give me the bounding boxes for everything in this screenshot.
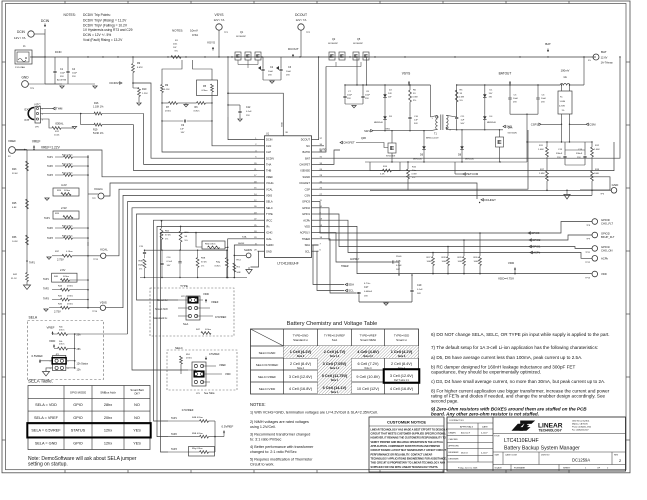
svg-text:5%: 5% — [412, 177, 415, 179]
svg-text:a) D5, D6 have average current: a) D5, D6 have average current less than… — [431, 355, 582, 360]
svg-text:TIMER: TIMER — [302, 237, 310, 241]
svg-text:100K: 100K — [474, 261, 480, 263]
svg-text:6.8K: 6.8K — [12, 207, 17, 209]
svg-text:GND: GND — [21, 76, 29, 80]
svg-text:12V / 7A: 12V / 7A — [296, 18, 307, 22]
svg-text:ICHG: ICHG — [266, 231, 272, 235]
svg-text:10uF: 10uF — [72, 73, 78, 75]
svg-text:GPIO1: GPIO1 — [532, 245, 541, 249]
svg-text:100K: 100K — [594, 173, 600, 175]
svg-text:Q4B: Q4B — [361, 137, 366, 140]
svg-text:3.2K: 3.2K — [380, 174, 385, 176]
svg-text:CSP: CSP — [305, 187, 311, 191]
svg-text:10uF: 10uF — [268, 71, 274, 73]
svg-text:24V: 24V — [388, 93, 392, 95]
svg-text:SELC: SELC — [175, 346, 184, 350]
svg-text:OK?: OK? — [134, 392, 140, 396]
svg-text:1: 1 — [50, 361, 51, 363]
svg-text:16V: 16V — [181, 132, 185, 134]
svg-text:SELA = VDD: SELA = VDD — [35, 403, 57, 407]
svg-text:SGND: SGND — [303, 175, 311, 179]
svg-text:2: 2 — [42, 114, 43, 116]
svg-text:0.5VREF: 0.5VREF — [215, 315, 227, 319]
svg-text:DCHFET: DCHFET — [485, 198, 497, 202]
svg-text:BATID: BATID — [303, 150, 311, 154]
svg-text:VCAL: VCAL — [266, 187, 273, 191]
svg-text:Antonio R: Antonio R — [460, 432, 471, 435]
svg-text:1uF: 1uF — [461, 120, 465, 122]
svg-text:SI7460DP: SI7460DP — [328, 43, 339, 45]
svg-text:R4c: R4c — [59, 341, 63, 343]
svg-text:16V: 16V — [167, 265, 171, 267]
svg-text:GPIO3: GPIO3 — [302, 200, 310, 204]
svg-text:R5g 0Ohm: R5g 0Ohm — [192, 448, 203, 450]
svg-text:GND: GND — [266, 249, 272, 253]
svg-text:VCHG: VCHG — [94, 187, 103, 191]
svg-text:SHDN: SHDN — [266, 243, 273, 247]
svg-text:25V: 25V — [286, 75, 290, 77]
svg-text:STATUS: STATUS — [71, 429, 86, 433]
svg-text:TAP3: TAP3 — [47, 174, 53, 177]
svg-text:TAP1: TAP1 — [29, 261, 35, 264]
svg-text:APPROVED: APPROVED — [449, 445, 460, 448]
svg-text:second page.: second page. — [431, 399, 459, 404]
svg-text:TAP1: TAP1 — [47, 156, 53, 159]
svg-text:Note 1,4: Note 1,4 — [330, 367, 340, 370]
svg-text:TECHNOLOGY: TECHNOLOGY — [539, 429, 563, 433]
svg-text:CHG_FLT: CHG_FLT — [601, 222, 613, 226]
svg-text:Note 4: Note 4 — [297, 367, 305, 370]
svg-text:R56 0Ohm: R56 0Ohm — [205, 244, 216, 246]
svg-text:NO: NO — [134, 403, 140, 407]
svg-text:SELC=VDD: SELC=VDD — [259, 387, 276, 391]
svg-text:TAP2: TAP2 — [47, 165, 53, 168]
svg-text:10uF: 10uF — [365, 95, 371, 97]
svg-text:DCIN: DCIN — [17, 30, 25, 34]
svg-text:DCIN: DCIN — [266, 138, 272, 142]
svg-text:0.5VREF: 0.5VREF — [32, 354, 44, 358]
svg-text:3 Cell (12.6V): 3 Cell (12.6V) — [390, 374, 414, 378]
svg-text:DCOUT: DCOUT — [301, 138, 311, 142]
svg-text:GPIO: GPIO — [73, 416, 83, 420]
svg-text:5) Requires modification of Th: 5) Requires modification of Thermistor — [250, 458, 313, 462]
svg-text:16V: 16V — [396, 269, 400, 271]
svg-text:DCDIV TripV (Rising) = 11.2V: DCDIV TripV (Rising) = 11.2V — [83, 19, 127, 23]
svg-text:8.67K: 8.67K — [137, 67, 143, 69]
svg-text:GPIO3: GPIO3 — [531, 231, 540, 235]
svg-text:MBR0540: MBR0540 — [374, 122, 384, 124]
svg-text:FILENAME: FILENAME — [514, 467, 525, 470]
svg-text:25V: 25V — [365, 98, 369, 100]
svg-text:ACPb: ACPb — [601, 256, 609, 260]
svg-text:1%: 1% — [562, 110, 565, 112]
svg-text:DRAWN: DRAWN — [449, 431, 457, 434]
svg-text:1A-7Amax: 1A-7Amax — [601, 61, 614, 65]
svg-text:12V / 7A: 12V / 7A — [14, 36, 26, 40]
svg-text:2.75V: 2.75V — [54, 310, 61, 314]
svg-text:MBR0540: MBR0540 — [487, 122, 497, 124]
svg-text:0.5VREF: 0.5VREF — [222, 425, 234, 429]
svg-text:ICAL: ICAL — [242, 236, 248, 239]
svg-text:2.9V: 2.9V — [61, 206, 67, 210]
svg-text:10uF: 10uF — [286, 71, 292, 73]
svg-text:SELC=GND: SELC=GND — [259, 351, 277, 355]
svg-text:0Ohm: 0Ohm — [194, 111, 200, 113]
svg-text:2.49K: 2.49K — [539, 173, 545, 175]
svg-text:VDD: VDD — [49, 339, 56, 343]
svg-text:Def T ains 1:1: Def T ains 1:1 — [394, 379, 409, 382]
svg-text:0.1uF: 0.1uF — [167, 261, 173, 263]
svg-text:ISENSE: ISENSE — [300, 169, 310, 173]
svg-text:NOTES:: NOTES: — [64, 13, 76, 17]
svg-text:HOWEVER, IT REMAINS THE CUSTOM: HOWEVER, IT REMAINS THE CUSTOMER'S RESPO… — [371, 437, 446, 440]
svg-text:CSM: CSM — [589, 122, 596, 126]
svg-text:SELA = VREF: SELA = VREF — [34, 416, 59, 420]
svg-text:1%: 1% — [201, 266, 204, 268]
svg-text:SLA: SLA — [183, 322, 188, 326]
svg-text:R25: R25 — [12, 202, 17, 205]
svg-text:R10: R10 — [142, 88, 147, 91]
svg-text:MBR0540: MBR0540 — [465, 159, 475, 161]
svg-text:to: 3:1 ratio Pri/Sec: to: 3:1 ratio Pri/Sec — [250, 438, 282, 442]
svg-text:25V: 25V — [246, 115, 250, 117]
svg-text:Smart NiMH: Smart NiMH — [360, 338, 376, 342]
svg-text:Battery Chemistry and Voltage: Battery Chemistry and Voltage Table — [287, 321, 377, 327]
svg-text:0Ohm: 0Ohm — [64, 190, 70, 192]
svg-text:4 Cell (4.8V): 4 Cell (4.8V) — [357, 350, 379, 354]
svg-text:4) Better performance with tra: 4) Better performance with transformer — [250, 445, 314, 449]
svg-text:9 Cell (10.8V): 9 Cell (10.8V) — [356, 375, 380, 379]
svg-text:3 Cell (7.05V): 3 Cell (7.05V) — [323, 362, 347, 366]
svg-text:VREF: VREF — [8, 139, 16, 143]
svg-text:0Ohm: 0Ohm — [67, 303, 73, 305]
svg-text:35V: 35V — [60, 76, 64, 78]
svg-text:R5B 0Ohm: R5B 0Ohm — [192, 433, 203, 435]
svg-text:SHEET: SHEET — [563, 468, 571, 470]
svg-text:CHG_ON: CHG_ON — [601, 248, 613, 252]
svg-text:6 Cell (7.2V): 6 Cell (7.2V) — [357, 362, 379, 366]
svg-text:28h: 28h — [77, 348, 82, 351]
svg-text:1A: 1A — [563, 75, 567, 79]
svg-text:capacitance, they should be ex: capacitance, they should be experimental… — [431, 370, 541, 375]
svg-text:LINEAR TECHNOLOGY HAS MADE A B: LINEAR TECHNOLOGY HAS MADE A BEST EFFORT… — [371, 428, 448, 431]
svg-text:TIMER: TIMER — [341, 265, 349, 268]
svg-text:DCIN = 12V +/- 5%: DCIN = 12V +/- 5% — [83, 33, 111, 37]
svg-text:SELA: SELA — [29, 316, 38, 320]
svg-text:162K: 162K — [138, 265, 144, 267]
svg-text:TITLE:: TITLE: — [494, 436, 500, 438]
svg-text:5%: 5% — [460, 100, 463, 102]
svg-text:10.0k: 10.0k — [54, 135, 60, 137]
svg-text:0Ohm: 0Ohm — [186, 358, 192, 360]
svg-text:TYPE: TYPE — [266, 212, 273, 216]
svg-text:CUSTOMER NOTICE: CUSTOMER NOTICE — [387, 420, 426, 425]
svg-text:BH510-1019: BH510-1019 — [426, 138, 439, 140]
svg-text:SW1: SW1 — [364, 129, 370, 133]
svg-text:20m: 20m — [173, 44, 177, 46]
svg-text:SUPPLIED FOR USE WITH LINEAR T: SUPPLIED FOR USE WITH LINEAR TECHNOLOGY … — [371, 466, 439, 469]
svg-text:APPROVALS: APPROVALS — [460, 426, 474, 429]
svg-text:50V: 50V — [461, 123, 465, 125]
svg-text:Note 3: Note 3 — [297, 355, 305, 358]
svg-text:1V Hysteresis using R73 and C2: 1V Hysteresis using R73 and C29 — [83, 28, 133, 32]
svg-text:R3B: R3B — [139, 261, 144, 263]
svg-text:Milpitas, CA 95035: Milpitas, CA 95035 — [572, 423, 588, 426]
svg-text:DCDIV TripV (Falling) = 10.2V: DCDIV TripV (Falling) = 10.2V — [83, 23, 128, 27]
svg-text:C19: C19 — [417, 284, 422, 287]
svg-text:TECHNOLOGY APPLICATIONS ENGINE: TECHNOLOGY APPLICATIONS ENGINEERING FOR … — [371, 457, 447, 460]
svg-text:330nF: 330nF — [576, 153, 583, 155]
svg-text:VREF: VREF — [47, 326, 55, 330]
svg-text:changed to: 2:1 ratio Pri/Sec: changed to: 2:1 ratio Pri/Sec — [250, 450, 297, 454]
svg-text:VREF: VREF — [219, 363, 226, 367]
svg-text:R4B 0Ohm: R4B 0Ohm — [192, 417, 203, 419]
svg-text:1.00M: 1.00M — [560, 101, 566, 103]
svg-text:DWG NO: DWG NO — [541, 455, 550, 457]
svg-text:51.1K: 51.1K — [11, 278, 17, 280]
svg-text:2.75V: 2.75V — [57, 258, 64, 262]
svg-text:12hx: 12hx — [104, 442, 112, 446]
svg-text:2.9V: 2.9V — [60, 268, 66, 272]
svg-text:PETCOM: PETCOM — [466, 172, 479, 176]
svg-text:SELC: SELC — [266, 206, 273, 210]
svg-text:25V: 25V — [347, 98, 351, 100]
svg-text:100K: 100K — [427, 261, 433, 263]
svg-text:0.5A: 0.5A — [192, 33, 198, 37]
svg-text:1%: 1% — [165, 239, 168, 241]
svg-text:IPCC: IPCC — [266, 218, 272, 222]
svg-text:APPLICATION. COMPONENT SUBSTI: APPLICATION. COMPONENT SUBSTITUTION AND … — [371, 445, 441, 448]
svg-text:CIRCUIT THAT MEETS CUSTOMER-SU: CIRCUIT THAT MEETS CUSTOMER-SUPPLIED SPE… — [371, 433, 446, 436]
svg-text:CSP1: CSP1 — [531, 122, 539, 126]
svg-text:21HS: 21HS — [396, 256, 402, 258]
svg-text:1%: 1% — [139, 269, 142, 271]
svg-text:LTC4110EUHF: LTC4110EUHF — [277, 262, 298, 266]
svg-text:TAP1: TAP1 — [44, 217, 50, 220]
svg-text:10 Cell (12V): 10 Cell (12V) — [357, 387, 380, 391]
svg-text:GPIO2/: GPIO2/ — [601, 232, 610, 236]
svg-text:0.1uF: 0.1uF — [417, 289, 423, 291]
svg-text:BAT: BAT — [601, 50, 607, 54]
svg-text:VSYS: VSYS — [402, 72, 411, 76]
svg-text:25V: 25V — [513, 102, 517, 104]
svg-text:TAP3: TAP3 — [47, 237, 53, 240]
svg-text:SHDN: SHDN — [244, 248, 252, 252]
svg-text:BATOUT: BATOUT — [499, 72, 512, 76]
svg-text:15V: 15V — [489, 93, 493, 95]
svg-text:ACPDLY: ACPDLY — [350, 258, 360, 261]
svg-text:GPIO2: GPIO2 — [532, 238, 541, 242]
svg-text:TAP1: TAP1 — [43, 278, 49, 281]
svg-text:VDD: VDD — [508, 261, 515, 265]
svg-text:BAT: BAT — [305, 156, 310, 160]
svg-text:GPIO2: GPIO2 — [302, 206, 310, 210]
svg-text:CIRCUIT BOARD LAYOUT MAY SIGNI: CIRCUIT BOARD LAYOUT MAY SIGNIFICANTLY A… — [371, 449, 447, 452]
svg-text:5.11K: 5.11K — [164, 89, 170, 91]
svg-text:C17: C17 — [364, 286, 369, 289]
svg-text:VDD: VDD — [203, 292, 209, 296]
svg-text:Q4A: Q4A — [508, 127, 513, 130]
svg-text:0Ohm: 0Ohm — [215, 266, 221, 268]
svg-text:GPIO1: GPIO1 — [302, 212, 310, 216]
svg-text:DCDIV Trip Points:: DCDIV Trip Points: — [83, 13, 111, 17]
svg-text:VDIS: VDIS — [100, 301, 107, 305]
svg-text:100K: 100K — [442, 261, 448, 263]
svg-text:R5B: R5B — [201, 258, 206, 260]
svg-text:4-1207: 4-1207 — [481, 452, 488, 454]
svg-text:4 Cell (16.8V): 4 Cell (16.8V) — [289, 387, 313, 391]
svg-text:1.10K 1%: 1.10K 1% — [93, 105, 104, 108]
svg-text:2 Cell (4.7V): 2 Cell (4.7V) — [324, 350, 346, 354]
svg-text:0.5VREF: 0.5VREF — [209, 352, 220, 356]
svg-text:0Ohm: 0Ohm — [67, 286, 73, 288]
svg-text:THM: THM — [56, 107, 63, 111]
svg-text:NOTES:: NOTES: — [172, 28, 183, 32]
svg-text:SDA: SDA — [348, 283, 354, 287]
svg-text:board. Any other zero-ohm res: board. Any other zero-ohm resistor is no… — [431, 412, 539, 417]
svg-text:NO: NO — [134, 416, 140, 420]
svg-text:YES: YES — [133, 442, 141, 446]
svg-text:ACPDLY: ACPDLY — [300, 231, 310, 235]
svg-text:SDA: SDA — [305, 243, 311, 247]
svg-text:INT: INT — [25, 118, 30, 122]
svg-text:TAP2: TAP2 — [171, 433, 177, 436]
svg-text:Note 4: Note 4 — [364, 367, 372, 370]
svg-text:1) With VCHG=GND, termination: 1) With VCHG=GND, termination voltages a… — [250, 411, 378, 415]
svg-text:SHDN: SHDN — [238, 243, 245, 245]
svg-text:DCOUT: DCOUT — [295, 13, 307, 17]
svg-text:TAP2: TAP2 — [43, 287, 49, 290]
svg-text:DCIN: DCIN — [41, 19, 50, 23]
svg-text:VSYS: VSYS — [207, 41, 215, 45]
svg-text:2 Cell (8.4V): 2 Cell (8.4V) — [391, 362, 413, 366]
svg-text:DCDIV: DCDIV — [266, 156, 274, 160]
svg-text:REV: REV — [614, 455, 619, 457]
svg-text:SMBus Addr: SMBus Addr — [100, 391, 116, 395]
svg-text:VDD: VDD — [305, 225, 311, 229]
svg-text:Note 1: Note 1 — [331, 379, 339, 382]
svg-text:Fax: (408)434-0507: Fax: (408)434-0507 — [572, 430, 589, 432]
svg-text:VREF: VREF — [211, 300, 219, 304]
svg-text:0.5VREF: 0.5VREF — [182, 408, 194, 412]
svg-text:setting on startup.: setting on startup. — [28, 462, 68, 468]
svg-text:4.2V: 4.2V — [61, 183, 67, 187]
svg-text:TAP3: TAP3 — [43, 298, 49, 301]
svg-text:SIZE: SIZE — [495, 455, 500, 457]
svg-text:DCDIV: DCDIV — [109, 81, 118, 85]
svg-text:12hx: 12hx — [104, 429, 112, 433]
svg-text:5%: 5% — [185, 240, 188, 242]
svg-text:5%: 5% — [175, 51, 178, 53]
svg-text:330nF: 330nF — [556, 153, 563, 155]
svg-text:ALUM SM: ALUM SM — [57, 79, 66, 82]
svg-text:SI7460DP: SI7460DP — [236, 36, 247, 38]
svg-text:37.4K: 37.4K — [201, 262, 207, 264]
svg-text:1uF: 1uF — [180, 129, 184, 131]
svg-text:VDIS: VDIS — [266, 194, 272, 198]
svg-text:THIS CIRCUIT IS PROPRIETARY TO: THIS CIRCUIT IS PROPRIETARY TO LINEAR TE… — [371, 462, 446, 465]
svg-text:0Ohm: 0Ohm — [63, 276, 69, 278]
svg-text:1.21K: 1.21K — [142, 93, 148, 95]
svg-text:NOTES:: NOTES: — [250, 402, 266, 407]
svg-text:DESIGNER: DESIGNER — [449, 459, 460, 461]
svg-text:VREF: VREF — [32, 140, 41, 144]
svg-text:25V: 25V — [72, 76, 76, 78]
svg-text:1 Cell (4.2V): 1 Cell (4.2V) — [290, 350, 312, 354]
svg-text:25V: 25V — [541, 102, 545, 104]
svg-text:CLN: CLN — [266, 144, 271, 148]
svg-text:100K: 100K — [458, 261, 464, 263]
svg-text:3: 3 — [42, 119, 43, 121]
svg-text:Vcal (Fault) Rising = 13.2V: Vcal (Fault) Rising = 13.2V — [83, 38, 123, 42]
svg-text:SI7216DN: SI7216DN — [508, 133, 518, 135]
svg-text:SCALE: SCALE — [495, 467, 503, 470]
svg-text:See Table: See Table — [204, 392, 215, 395]
svg-text:SELA Table.: SELA Table. — [28, 379, 53, 384]
svg-text:SLA: SLA — [332, 338, 338, 342]
svg-text:1uF: 1uF — [414, 120, 418, 122]
svg-text:4-1207: 4-1207 — [481, 433, 488, 435]
svg-text:SELC=VREF: SELC=VREF — [258, 375, 276, 379]
svg-text:VREF: VREF — [266, 175, 273, 179]
svg-text:DCIN: DCIN — [55, 50, 61, 54]
svg-text:SELA = GND: SELA = GND — [35, 442, 58, 446]
svg-text:SI7218DN: SI7218DN — [386, 156, 396, 158]
svg-text:CHECKED: CHECKED — [449, 439, 459, 441]
svg-text:IDEAL: IDEAL — [56, 122, 65, 126]
svg-text:ACPb: ACPb — [303, 218, 310, 222]
svg-text:5%: 5% — [413, 100, 416, 102]
svg-text:VDD: VDD — [601, 272, 607, 276]
svg-text:BATID: BATID — [320, 149, 327, 152]
svg-text:Smart Li: Smart Li — [396, 338, 407, 342]
svg-text:20h: 20h — [77, 333, 82, 336]
svg-text:16V: 16V — [364, 296, 368, 298]
svg-text:12h Status: 12h Status — [77, 362, 89, 365]
svg-text:Mark D: Mark D — [461, 451, 468, 454]
svg-text:PERFORMANCE OR RELIABILITY. C: PERFORMANCE OR RELIABILITY. CONTACT LINE… — [371, 453, 433, 456]
svg-text:25V: 25V — [268, 75, 272, 77]
svg-text:DCOUT: DCOUT — [288, 47, 299, 51]
svg-text:6) DO NOT change SELA, SELC, O: 6) DO NOT change SELA, SELC, OR TYPE pin… — [431, 332, 610, 337]
svg-text:ACPb: ACPb — [533, 251, 541, 255]
svg-text:Battery Backup System Manager: Battery Backup System Manager — [504, 446, 580, 452]
svg-text:ICAL: ICAL — [266, 237, 272, 241]
svg-text:10uF: 10uF — [513, 98, 519, 100]
svg-text:C18: C18 — [396, 260, 401, 263]
svg-text:THA: THA — [266, 163, 271, 167]
svg-text:VERIFY PROPER AND RELIABLE OPE: VERIFY PROPER AND RELIABLE OPERATION IN … — [371, 441, 444, 444]
svg-text:GPIO1/: GPIO1/ — [601, 245, 610, 249]
svg-text:0.25W: 0.25W — [559, 106, 565, 108]
svg-text:VREF=1.22V: VREF=1.22V — [41, 145, 61, 149]
svg-text:1.00K: 1.00K — [538, 149, 544, 151]
svg-text:GPIO: GPIO — [73, 442, 83, 446]
svg-text:VDD: VDD — [225, 372, 231, 376]
svg-text:0 Ohm: 0 Ohm — [66, 251, 73, 253]
svg-text:PJ-102AH: PJ-102AH — [15, 66, 25, 69]
svg-text:R36: R36 — [12, 236, 17, 239]
svg-text:SELC=0.5VREF: SELC=0.5VREF — [256, 363, 279, 367]
svg-text:C12: C12 — [246, 106, 251, 109]
svg-text:5 Cell (11.75V): 5 Cell (11.75V) — [322, 374, 348, 378]
svg-text:Friday, June 01, 2008: Friday, June 01, 2008 — [458, 468, 478, 470]
svg-text:Phone: (408)432-1900: Phone: (408)432-1900 — [572, 427, 591, 429]
svg-text:2: 2 — [68, 361, 69, 363]
svg-text:1.00K: 1.00K — [594, 149, 600, 151]
svg-text:CONTRACT NO.: CONTRACT NO. — [449, 419, 465, 422]
svg-text:MBR0540: MBR0540 — [413, 159, 423, 161]
